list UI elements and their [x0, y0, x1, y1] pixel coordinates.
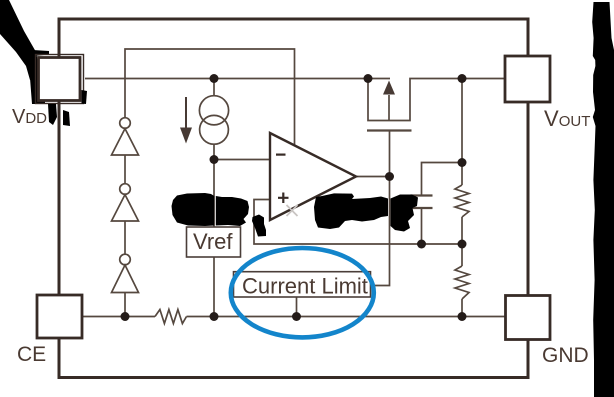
svg-text:Current Limit: Current Limit [242, 274, 368, 299]
svg-text:VDD: VDD [12, 106, 47, 128]
svg-text:CE: CE [17, 343, 46, 366]
svg-text:GND: GND [542, 344, 589, 367]
svg-text:Vref: Vref [193, 229, 233, 254]
